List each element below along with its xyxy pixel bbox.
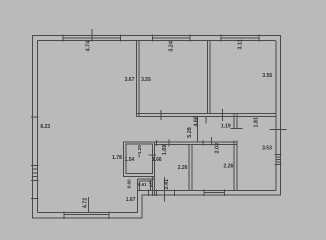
window bottom-left right tick [108,212,110,219]
partition P1 left line [136,41,138,117]
svg-text:2.26: 2.26 [224,163,234,169]
wall bottom-left inner [38,212,138,214]
compartment right inner line [150,181,152,191]
window left-wall rung3 [33,176,38,178]
partition P3 right line [209,41,211,114]
svg-text:1.81: 1.81 [254,117,260,128]
compartment right mid line [151,176,153,195]
svg-text:1.54: 1.54 [125,157,135,163]
partition P2 right line [191,145,193,191]
svg-text:2.41: 2.41 [164,179,170,190]
window right-wall rung1 [276,156,281,158]
window left-wall rung2 [33,172,38,174]
window W3 midline [221,37,259,39]
svg-text:3.53: 3.53 [262,146,272,152]
wc box outer [123,142,154,177]
svg-text:2.03: 2.03 [215,143,221,154]
tick left wall upper [31,116,39,118]
svg-text:5.28: 5.28 [187,127,193,138]
partition P2 left line [188,145,190,191]
window W2 midline [152,37,190,39]
wall V1 left line lower [233,141,235,191]
window bottom-mid right tick [224,190,226,196]
svg-text:1.20: 1.20 [137,145,142,155]
wall bottom-left outer [32,217,142,219]
partition P1 right line [138,41,140,117]
svg-text:4.72: 4.72 [83,198,89,209]
rooms-row wall H2 upper line [155,141,237,143]
tick on H2 middle [202,140,204,146]
rooms-row wall H2 lower line [155,144,237,146]
svg-text:2.26: 2.26 [178,165,188,171]
window W2 left tick [151,35,153,42]
wall bottom-mid outer [142,194,281,196]
dimension line 1.19 [222,109,224,121]
tick on H2 left [156,140,158,146]
svg-text:1.69: 1.69 [162,145,168,156]
svg-text:0.60: 0.60 [126,179,131,189]
compartment right outer line [154,176,156,195]
window right-wall bottom tick [275,163,282,165]
dimension line 4.72 [88,197,90,213]
wall V1 right line upper [236,114,238,129]
window W1 left tick [62,35,64,42]
dimension line 2.03 [211,137,213,146]
compartment left inner line [139,181,141,191]
svg-text:1.78: 1.78 [112,155,122,161]
dimension line 2.41 [164,177,166,201]
svg-text:3.11: 3.11 [238,39,244,49]
window bottom-mid left tick [203,190,205,196]
door tick V1 [231,127,243,129]
partition P3 left line [207,41,209,114]
wall right inner [275,41,277,191]
svg-text:4.66: 4.66 [193,116,199,127]
svg-text:3.55: 3.55 [141,77,151,83]
compartment left outer line [137,179,139,191]
window bottom-left left tick [63,212,65,219]
wall right outer [279,36,281,196]
svg-text:0.75: 0.75 [149,180,153,187]
window W1 midline [63,37,121,39]
svg-text:0.61: 0.61 [138,182,147,187]
svg-text:1.66: 1.66 [152,157,162,163]
svg-text:4.74: 4.74 [86,41,92,52]
tick left wall lower [31,197,39,199]
tick bottom wall a [148,190,150,196]
wall step inner [136,190,138,213]
window right-wall rung3 [276,161,281,163]
window left-wall top tick [31,164,39,166]
wall V1 left line upper [233,114,235,129]
dimension line 4.66 [196,116,198,141]
wall top outer [32,35,281,37]
wall left inner [37,41,39,214]
wall left outer [32,35,34,219]
svg-text:3.24: 3.24 [169,41,175,52]
tick bottom wall c [174,190,176,196]
compartment top inner line [140,180,151,182]
tick on H1 [160,110,162,120]
svg-text:3.67: 3.67 [125,77,135,83]
svg-text:8.23: 8.23 [40,124,50,130]
tick on H2 at 1.69 [168,140,170,147]
wall top inner [38,40,276,42]
dimension line 1.81-3.53 [270,129,287,131]
window bottom-mid midline [204,192,224,194]
window W1 right tick [119,35,121,42]
svg-text:1.19: 1.19 [221,124,231,130]
dimension line 4.74 [91,29,93,42]
tick bottom wall b [156,190,158,196]
wc box inner [126,144,152,173]
window W3 right tick [258,35,260,42]
window right-wall top tick [275,153,282,155]
dimension line 1.20 [138,154,140,157]
svg-text:3.55: 3.55 [262,73,272,79]
svg-text:1.67: 1.67 [126,197,136,203]
wall V1 right line lower [236,141,238,191]
hall wall H1 lower line [137,115,276,117]
window right-wall rung2 [276,158,281,160]
window W3 left tick [220,35,222,42]
window left-wall bottom tick [31,179,39,181]
window bottom-left midline [64,214,109,216]
stub below H1 [205,116,207,123]
wc tick right wall [148,154,156,156]
hall wall H1 upper line [137,113,276,115]
compartment top outer line [138,178,155,180]
wall bottom-mid inner [137,189,276,191]
window left-wall rung1 [33,168,38,170]
wall step outer [141,195,143,219]
window W2 right tick [189,35,191,42]
